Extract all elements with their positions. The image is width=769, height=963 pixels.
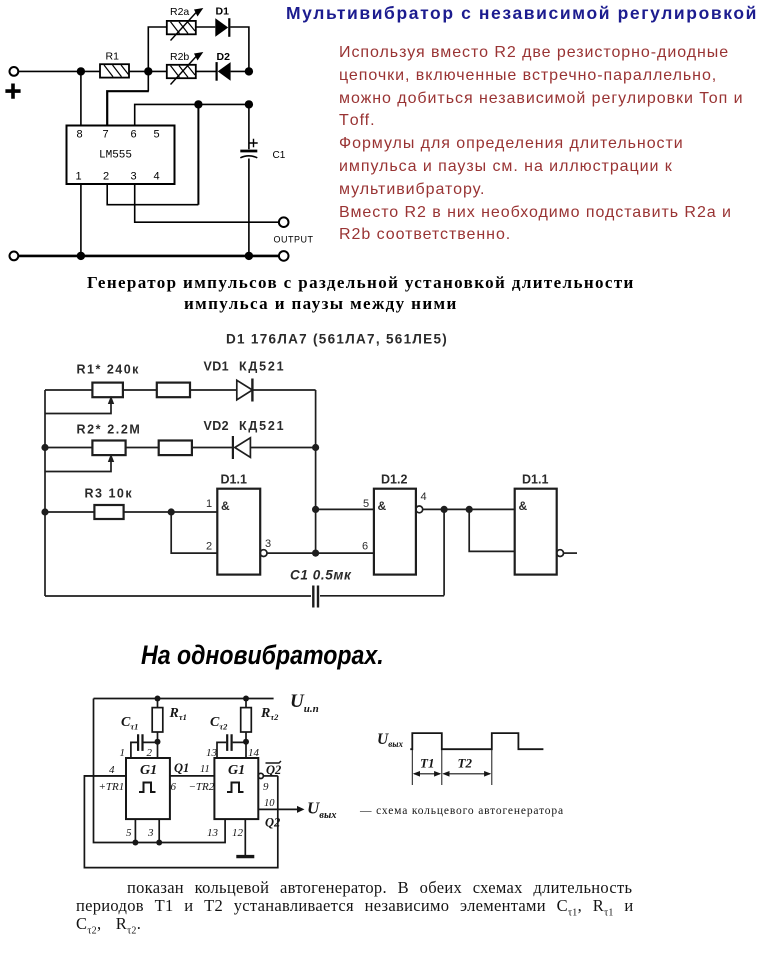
svg-text:1: 1 (206, 498, 212, 510)
svg-text:5: 5 (126, 827, 132, 839)
svg-text:Uвых: Uвых (377, 731, 403, 749)
svg-text:Rτ2: Rτ2 (260, 706, 279, 722)
R2 wiper arrow (45, 454, 114, 472)
terminal plus-input (10, 67, 19, 76)
svg-text:T2: T2 (458, 756, 473, 771)
node mid-pin5 (312, 506, 319, 513)
svg-text:11: 11 (200, 764, 210, 775)
svg-text:G1: G1 (228, 763, 245, 778)
red paragraph (339, 42, 744, 247)
node supply-R2 (243, 696, 249, 702)
capacitor C1 (240, 139, 257, 158)
diode VD2 (233, 436, 251, 459)
monostable G1 second (214, 758, 258, 819)
svg-text:LM555: LM555 (99, 150, 132, 162)
wire pin14 (245, 742, 247, 758)
page title (286, 3, 758, 24)
capacitor C1 (313, 586, 318, 608)
svg-text:C1: C1 (273, 150, 286, 161)
wire Q2 out (258, 806, 304, 813)
svg-text:13: 13 (207, 827, 219, 839)
svg-text:9: 9 (263, 781, 269, 793)
svg-text:5: 5 (363, 498, 369, 510)
wire R1 row (45, 389, 237, 391)
node mid-out (312, 550, 319, 557)
ground (236, 855, 254, 858)
svg-text:D1.1: D1.1 (221, 473, 247, 487)
svg-text:Uвых: Uвых (307, 799, 337, 822)
resistor R2a (167, 21, 196, 34)
svg-text:G1: G1 (140, 763, 157, 778)
bottom paragraph (75, 874, 77, 876)
wire pin6 (135, 104, 249, 125)
wire gate2 out (423, 508, 515, 510)
wire cap to ground rail (248, 104, 250, 256)
svg-text:4: 4 (421, 491, 427, 503)
svg-text:— схема кольцевого автогенерат: — схема кольцевого автогенератора (359, 805, 564, 817)
resistor R3 (94, 505, 123, 519)
feedback loop outer (84, 776, 277, 868)
section heading line 1 (87, 273, 635, 293)
svg-text:6: 6 (131, 129, 137, 141)
svg-text:2: 2 (206, 541, 212, 553)
svg-text:7: 7 (103, 129, 109, 141)
svg-text:КД521: КД521 (239, 419, 285, 433)
gate3 output bubble (557, 550, 564, 557)
wire pin1 to ground (80, 184, 82, 256)
svg-text:3: 3 (131, 171, 137, 183)
node Rt1-C (155, 739, 161, 745)
svg-text:R3 10к: R3 10к (85, 487, 134, 501)
svg-text:R2b: R2b (170, 51, 189, 63)
wire node to pin7 (147, 71, 149, 91)
svg-text:Cτ2: Cτ2 (210, 715, 228, 732)
node R3-split (168, 508, 175, 515)
R1 wiper arrow (45, 396, 114, 414)
wire R2 row (45, 447, 316, 449)
node cap top (245, 100, 253, 108)
diode VD1 (237, 379, 253, 402)
wire D1 to right rail (230, 27, 249, 71)
capacitor Ct2 (217, 734, 246, 758)
svg-text:T1: T1 (420, 756, 434, 771)
pulse glyph 2 (227, 783, 244, 793)
node rail-R3 (41, 508, 48, 515)
svg-text:3: 3 (147, 827, 154, 839)
dimension arrow T2 (442, 771, 491, 777)
wire pin12 to ground (244, 819, 246, 856)
svg-text:2: 2 (103, 171, 109, 183)
wire mid rail vertical (315, 390, 317, 553)
resistor Rt1 (152, 699, 163, 742)
handwritten heading (141, 640, 384, 671)
node pin5 (132, 840, 138, 846)
node in3-top (466, 506, 473, 513)
wire left rail (44, 390, 46, 596)
extension lines (412, 749, 492, 785)
svg-text:1: 1 (120, 747, 126, 759)
wire pin8 down (80, 71, 82, 125)
svg-text:Cτ1: Cτ1 (121, 715, 138, 732)
wire to pin2 (171, 512, 217, 553)
wire pin3 to output (135, 184, 279, 222)
label Q2bar (266, 761, 282, 777)
diode D1 (215, 18, 229, 37)
node mid-R2 (312, 444, 319, 451)
wire R3 row (45, 511, 217, 513)
monostable G1 first (126, 758, 170, 819)
wire supply top (94, 698, 274, 700)
svg-text:&: & (221, 499, 230, 513)
gate D1.2 box (374, 489, 416, 575)
node rail-R2 (41, 444, 48, 451)
wire TR1 input (84, 775, 126, 777)
wire D2 to right rail (231, 70, 249, 72)
svg-text:5: 5 (154, 129, 160, 141)
resistor Rt2 (241, 699, 252, 742)
gate2 output bubble (416, 506, 423, 513)
svg-text:VD1: VD1 (204, 360, 230, 374)
wire R2a to D1 (196, 26, 216, 28)
svg-text:+TR1: +TR1 (99, 781, 125, 793)
svg-text:&: & (519, 499, 528, 513)
gate D1.1b box (515, 489, 557, 575)
wire feedback elbow to pin2 (107, 184, 198, 205)
svg-text:6: 6 (362, 541, 368, 553)
svg-text:12: 12 (232, 827, 244, 839)
capacitor Ct1 (131, 734, 158, 758)
svg-text:R2* 2.2М: R2* 2.2М (77, 423, 142, 437)
terminal OUTPUT (279, 217, 289, 227)
pin5 stub (134, 819, 136, 842)
resistor R2* (92, 441, 125, 456)
svg-text:VD2: VD2 (204, 419, 230, 433)
wire R1 to R2b node (129, 70, 167, 72)
resistor R1 series (157, 383, 190, 398)
Q2bar bubble (258, 773, 263, 778)
wire pin7 thick (107, 91, 149, 126)
svg-text:4: 4 (109, 764, 115, 776)
wire pin2 (157, 742, 159, 758)
resistor R1 (100, 64, 129, 77)
svg-text:R1: R1 (106, 51, 120, 63)
wire ground rail (18, 255, 278, 258)
wire supply horizontal (18, 70, 100, 72)
node fb-top (441, 506, 448, 513)
pulse glyph 1 (139, 783, 156, 793)
svg-text:Uи.п: Uи.п (290, 691, 319, 715)
svg-text:3: 3 (265, 538, 271, 550)
svg-text:R2a: R2a (170, 6, 189, 18)
svg-text:8: 8 (77, 129, 83, 141)
svg-text:−TR2: −TR2 (189, 781, 215, 793)
svg-text:D1.1: D1.1 (522, 473, 548, 487)
plus sign (5, 84, 20, 99)
node ground-pin1 (77, 252, 85, 260)
wire up to R2a branch (148, 27, 167, 71)
wire gate1 out (267, 552, 374, 554)
section heading line 2 (184, 294, 458, 314)
resistor R2 series (159, 441, 192, 456)
svg-text:10: 10 (264, 798, 275, 809)
node Rt2-C (243, 739, 249, 745)
svg-text:R1* 240к: R1* 240к (77, 363, 140, 377)
wire Q1 (170, 775, 215, 777)
wire feedback thick vertical (197, 104, 199, 204)
IC U1 LM555 (67, 126, 175, 185)
svg-text:Q1: Q1 (174, 761, 189, 775)
wire gate3 out (564, 552, 578, 554)
svg-text:&: & (378, 499, 387, 513)
wire pin5 row (316, 508, 374, 510)
wire Q2bar (263, 775, 277, 777)
node supply-R1 (155, 696, 161, 702)
wire gate3 lower input (469, 509, 515, 551)
node pin6-feedback (194, 100, 202, 108)
resistor R2b (167, 65, 196, 78)
svg-text:6: 6 (171, 781, 177, 793)
svg-text:OUTPUT: OUTPUT (274, 235, 314, 245)
svg-text:Q2: Q2 (266, 763, 281, 777)
node pin3 (156, 840, 162, 846)
arrow R2a wiper (171, 8, 204, 41)
svg-text:D1.2: D1.2 (381, 473, 407, 487)
svg-text:D1 176ЛА7 (561ЛА7, 561ЛЕ5): D1 176ЛА7 (561ЛА7, 561ЛЕ5) (226, 332, 448, 347)
terminal minus-input (10, 252, 19, 261)
terminal output-ground (279, 251, 289, 261)
wire fb vertical (443, 509, 445, 595)
wire R2b to D2 (196, 70, 216, 72)
diode D2 (217, 62, 231, 81)
arrow R2b wiper (171, 52, 204, 85)
svg-text:4: 4 (154, 171, 160, 183)
svg-text:С1 0.5мк: С1 0.5мк (290, 568, 352, 583)
svg-text:D2: D2 (217, 51, 231, 63)
gate1 output bubble (260, 550, 267, 557)
node supply-pin8 (77, 67, 85, 75)
node ground-cap (245, 252, 253, 260)
gate D1.1a box (217, 489, 260, 575)
pin3 stub (158, 819, 160, 842)
node R2 left (144, 67, 152, 75)
node D2 right (245, 67, 253, 75)
svg-text:Rτ1: Rτ1 (169, 706, 187, 722)
svg-text:D1: D1 (216, 6, 230, 18)
wire VD1 to mid rail (252, 389, 315, 391)
svg-text:КД521: КД521 (239, 360, 285, 374)
wire left inner rail (94, 699, 226, 843)
dimension arrow T1 (413, 771, 442, 777)
svg-text:1: 1 (76, 171, 82, 183)
wire bottom feedback row (45, 595, 444, 597)
waveform trace (410, 733, 543, 749)
resistor R1* (92, 383, 123, 398)
